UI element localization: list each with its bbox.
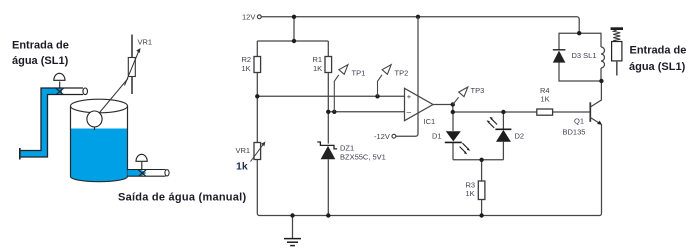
- svg-text:12V: 12V: [242, 13, 255, 22]
- ground: [284, 239, 301, 246]
- svg-text:Entrada de: Entrada de: [630, 45, 687, 57]
- node box top: [577, 31, 581, 35]
- float: [87, 111, 102, 127]
- op-amp IC1: [405, 88, 434, 120]
- wire R1 top lead: [327, 41, 329, 57]
- tank top ellipse: [71, 99, 128, 113]
- node D1-D2/R3: [479, 158, 483, 162]
- terminal -12V: [392, 134, 396, 138]
- node R3 bottom: [479, 213, 483, 217]
- LED D2: [495, 128, 511, 130]
- wire R3 top lead: [481, 160, 483, 181]
- svg-text:VR1: VR1: [138, 38, 153, 47]
- node divider top: [292, 39, 296, 43]
- svg-text:DZ1: DZ1: [340, 144, 354, 153]
- svg-text:TP2: TP2: [395, 69, 409, 78]
- potentiometer VR1 body: [254, 143, 261, 160]
- inlet pipe open end ellipse: [83, 88, 88, 95]
- node ground: [290, 213, 294, 217]
- svg-text:+: +: [407, 92, 412, 101]
- svg-text:–: –: [407, 107, 412, 116]
- svg-text:IC1: IC1: [424, 117, 436, 126]
- inlet pipe outline: [20, 88, 84, 157]
- wire DZ1 bottom lead: [327, 159, 329, 215]
- svg-text:1K: 1K: [466, 189, 475, 198]
- svg-text:TP3: TP3: [471, 86, 485, 95]
- wire left rail VR1 lower + bottom rail + emitter rail: [257, 125, 601, 216]
- node TP1/-input: [332, 110, 336, 114]
- wire R3 bottom lead: [481, 200, 483, 216]
- wire D1 bottom lead: [452, 142, 454, 159]
- node 12V-rail/divider: [292, 15, 296, 19]
- svg-text:Entrada de: Entrada de: [12, 40, 69, 52]
- svg-text:TP1: TP1: [352, 69, 366, 78]
- wire R2 top lead: [256, 41, 258, 57]
- wire divider top horizontal: [257, 40, 328, 42]
- svg-text:1K: 1K: [242, 64, 251, 73]
- svg-text:R1: R1: [313, 55, 323, 64]
- wire D1 top lead: [452, 112, 454, 131]
- test point TP3: [453, 97, 459, 104]
- wire output rail to R4: [453, 111, 537, 113]
- svg-text:BD135: BD135: [563, 128, 586, 137]
- transistor Q1: [589, 102, 591, 122]
- wire DZ1 top lead: [327, 112, 329, 144]
- inlet pipe blue fill: [20, 88, 63, 157]
- diode D3: [553, 49, 566, 51]
- lever line float to VR1: [95, 79, 128, 119]
- test point TP2: [378, 75, 383, 97]
- inlet pipe end cap left: [19, 148, 21, 160]
- svg-text:D3 SL1: D3 SL1: [572, 51, 597, 60]
- coil SL1: [601, 47, 605, 68]
- svg-text:Q1: Q1: [574, 117, 584, 126]
- tank water: [71, 129, 128, 182]
- svg-text:água (SL1): água (SL1): [629, 61, 686, 73]
- svg-text:-12V: -12V: [374, 132, 390, 141]
- wire opamp V+ supply (passes through symbol): [417, 17, 419, 113]
- outlet valve X: [139, 170, 147, 176]
- solenoid actuator T-bar: [611, 27, 623, 30]
- resistor R2: [254, 57, 261, 73]
- outlet valve stem: [141, 162, 143, 170]
- wire left rail VR1 upper: [256, 96, 258, 142]
- wire D3 box bottom: [559, 63, 601, 82]
- resistor R1: [325, 57, 332, 73]
- inlet valve X: [56, 88, 64, 94]
- svg-text:1K: 1K: [541, 95, 550, 104]
- node box bottom collector: [599, 79, 603, 83]
- wire R4 to Q1 base: [553, 111, 590, 113]
- potentiometer VR1 arrow: [251, 144, 264, 162]
- VR1 mechanical wiper arrow: [125, 51, 140, 86]
- node output TP3: [451, 102, 455, 106]
- node TP2/+input: [375, 94, 379, 98]
- node R1/-input: [326, 110, 330, 114]
- wire Q1 collector to box: [590, 81, 601, 107]
- outlet pipe outline: [128, 170, 166, 177]
- solenoid actuator body: [612, 42, 622, 61]
- test point TP1: [334, 75, 339, 112]
- wire D2 top lead: [502, 112, 504, 129]
- wire opamp output: [433, 105, 453, 113]
- top rail 12V: [261, 17, 579, 33]
- wire D3 box top: [559, 33, 601, 50]
- VR1 mechanical body: [128, 58, 135, 77]
- resistor R4: [537, 109, 553, 115]
- outlet pipe blue stub: [128, 170, 147, 177]
- node D2 top: [501, 110, 505, 114]
- ground stem: [292, 216, 294, 239]
- terminal 12V: [257, 15, 261, 19]
- VR1 mechanical lower lead: [131, 77, 133, 95]
- label: Entrada de água (SL1) left: [12, 40, 69, 68]
- wire D1-D2 bottom link: [453, 159, 503, 161]
- inlet valve stem: [59, 82, 61, 89]
- LED D1: [446, 131, 461, 141]
- svg-text:D2: D2: [515, 132, 525, 141]
- node R2/+input: [255, 94, 259, 98]
- svg-text:VR1: VR1: [236, 146, 251, 155]
- float tie line: [94, 126, 96, 130]
- resistor R3: [478, 181, 485, 200]
- svg-text:Saída de água (manual): Saída de água (manual): [118, 192, 246, 204]
- wire 12V node down to divider top: [293, 17, 295, 41]
- svg-text:BZX55C, 5V1: BZX55C, 5V1: [340, 153, 386, 162]
- svg-text:água (SL1): água (SL1): [12, 55, 69, 67]
- solenoid actuator spring: [613, 30, 620, 42]
- tank body outline: [71, 106, 128, 182]
- node output rail: [451, 110, 455, 114]
- solenoid actuator stem: [616, 61, 618, 76]
- outlet valve handle dome: [136, 154, 147, 161]
- wire D2 bottom lead: [502, 142, 504, 160]
- wire R2 bottom lead: [256, 73, 258, 97]
- node rail/opamp supply: [416, 15, 420, 19]
- wire opamp V- supply to -12V: [396, 110, 418, 136]
- node DZ1 bottom: [326, 213, 330, 217]
- svg-text:D1: D1: [432, 132, 442, 141]
- wire inverting input: [328, 111, 404, 113]
- outlet pipe open end: [165, 170, 169, 176]
- VR1 mechanical upper lead: [131, 35, 133, 58]
- svg-text:1K: 1K: [313, 64, 322, 73]
- svg-text:R2: R2: [242, 55, 252, 64]
- wire noninverting input: [257, 95, 404, 97]
- svg-text:1k: 1k: [236, 161, 248, 173]
- zener DZ1: [317, 142, 337, 149]
- wire R1 bottom lead: [327, 73, 329, 112]
- inlet valve handle dome: [54, 73, 65, 80]
